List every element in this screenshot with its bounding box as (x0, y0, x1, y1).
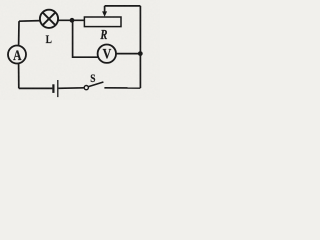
wire left rail lower (18, 63, 20, 88)
wire switch to bottom right (104, 87, 140, 89)
ammeter A (8, 46, 26, 64)
switch S blade (89, 82, 104, 87)
battery negative short plate (52, 84, 54, 93)
wire lamp to rheostat (58, 19, 84, 21)
switch S pivot (84, 86, 88, 90)
node junction dot left (70, 18, 75, 23)
wire voltmeter to right rail (116, 53, 140, 55)
rheostat R body (84, 17, 121, 27)
wire rheostat top to right rail (105, 5, 141, 7)
scan noise overlay (0, 0, 1, 1)
battery positive long plate (57, 80, 59, 97)
lamp L (40, 10, 58, 28)
wire battery to switch (59, 87, 84, 90)
rheostat slider arrow (102, 6, 107, 17)
node junction dot right (138, 51, 143, 56)
wire voltmeter branch vertical (73, 20, 99, 57)
wire bottom left (19, 87, 53, 89)
voltmeter V (98, 45, 116, 63)
wire right rail (139, 6, 141, 88)
wire left rail upper (18, 21, 20, 46)
wire top-left horizontal (19, 20, 40, 23)
